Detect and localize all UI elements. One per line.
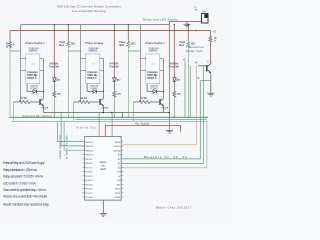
svg-text:PB2/D10: PB2/D10	[85, 155, 94, 157]
svg-text:PD1/TX: PD1/TX	[85, 193, 93, 195]
svg-text:GND2: GND2	[115, 189, 121, 191]
svg-text:PB3/D11: PB3/D11	[85, 150, 94, 152]
svg-text:Arduino Uno current limit = 40: Arduino Uno current limit = 40 mA total.	[3, 194, 48, 198]
svg-text:PB1/D9: PB1/D9	[85, 159, 93, 161]
svg-text:Line Controlled Sensing: Line Controlled Sensing	[72, 9, 106, 13]
svg-text:5V: 5V	[193, 6, 197, 9]
svg-text:PD3/D3: PD3/D3	[85, 184, 93, 186]
svg-text:Total current for operated rel: Total current for operated relay = 43 mA…	[3, 188, 47, 192]
svg-text:Result: Transistor amp needed: Result: Transistor amp needed for relay.	[3, 203, 49, 207]
svg-text:Measure Vc, Vb, Ve: Measure Vc, Vb, Ve	[144, 155, 187, 159]
svg-text:PD6/D6: PD6/D6	[85, 172, 93, 174]
svg-text:Blame Gray 3/5/2017: Blame Gray 3/5/2017	[156, 206, 192, 210]
svg-text:External Relay and LED Power S: External Relay and LED Power Supply	[3, 161, 45, 165]
svg-text:PD5/D5: PD5/D5	[85, 176, 93, 178]
svg-text:PB4/D12: PB4/D12	[85, 146, 94, 148]
svg-text:PD0/RX: PD0/RX	[85, 197, 93, 199]
svg-text:Phase Digital 2: Phase Digital 2	[25, 41, 45, 45]
svg-text:C: C	[207, 60, 209, 63]
svg-text:IOREF: IOREF	[114, 197, 121, 199]
svg-text:PD4/D4: PD4/D4	[85, 180, 93, 182]
svg-text:PD2/D2: PD2/D2	[85, 189, 93, 191]
svg-text:Double Relay Coil: Double Relay Coil	[59, 135, 62, 159]
svg-text:Phase Analog: Phase Analog	[85, 41, 104, 45]
svg-text:W1 5V: W1 5V	[7, 42, 9, 48]
svg-text:PD7/D7: PD7/D7	[85, 167, 93, 169]
svg-text:Transceiver: Transceiver	[186, 45, 204, 49]
svg-text:GND1: GND1	[115, 193, 121, 195]
svg-text:Relay and LED Supply: Relay and LED Supply	[143, 18, 178, 22]
svg-text:PB5/D13: PB5/D13	[85, 142, 94, 144]
svg-text:Under Test: Under Test	[186, 49, 202, 53]
svg-text:in Series Rly Coils: in Series Rly Coils	[65, 135, 68, 159]
svg-text:VIN: VIN	[117, 172, 121, 174]
svg-text:Relay coil resistance = 125 oh: Relay coil resistance = 125 ohms.	[3, 168, 37, 172]
svg-text:Phase Digital 1: Phase Digital 1	[145, 41, 165, 45]
svg-text:PB0/D8: PB0/D8	[85, 163, 93, 165]
svg-text:V2 5V: V2 5V	[202, 11, 206, 13]
svg-text:V12: V12	[213, 31, 217, 34]
svg-text:Relay coil current = 5 V/125 =: Relay coil current = 5 V/125 = 40 mA	[3, 175, 44, 179]
svg-text:LED current = 3 V/1k = 3 mA.: LED current = 3 V/1k = 3 mA.	[3, 181, 37, 185]
svg-text:Selected Rly Output: Selected Rly Output	[22, 114, 52, 118]
svg-text:(Rev3): (Rev3)	[100, 169, 106, 171]
svg-text:828 128 Day 13 Common Emitter: 828 128 Day 13 Common Emitter Connection	[57, 4, 121, 8]
